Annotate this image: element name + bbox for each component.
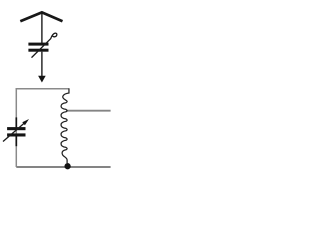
inductor L1 <box>61 89 69 164</box>
capacitor C1 trimmer arrow <box>32 33 57 58</box>
wire top of tank <box>16 88 70 90</box>
wire left side of tank <box>15 88 17 167</box>
arrowhead down to tank <box>38 76 46 83</box>
capacitor C2 lead stubs <box>15 117 17 127</box>
antenna symbol <box>20 12 62 21</box>
junction node dot <box>64 163 70 169</box>
wire bottom of tank <box>16 166 110 168</box>
capacitor C2 plates <box>7 127 25 130</box>
wire antenna lead <box>41 14 43 43</box>
wire coil tap to right <box>66 110 111 112</box>
wire capacitor to arrow <box>41 52 43 77</box>
capacitor C1 plates <box>28 43 48 46</box>
capacitor C2 variable arrow <box>3 123 25 142</box>
